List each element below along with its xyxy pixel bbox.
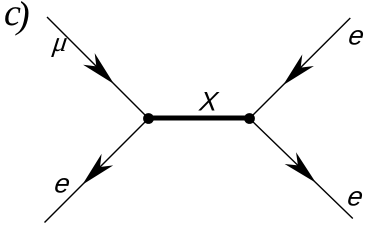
label c) panel letter [4, 0, 30, 37]
svg-text:X: X [197, 86, 220, 117]
node: right vertex dot [244, 113, 255, 124]
node: left vertex dot [143, 113, 154, 124]
wire: incoming muon line (top-left to left vertex) [47, 17, 149, 119]
svg-text:e: e [53, 168, 73, 199]
X boson propagator (thick horizontal line) [149, 116, 250, 121]
wire: outgoing electron line (left vertex to bottom-left) [45, 119, 149, 223]
svg-text:): ) [15, 0, 30, 37]
svg-text:e: e [347, 20, 367, 51]
svg-text:μ: μ [50, 27, 69, 58]
arrow on bottom-left electron line (points down-left, outgoing) [77, 154, 114, 191]
wire: incoming electron line (top-right to right vertex) [250, 18, 351, 119]
arrow on muon line (points down-right toward vertex) [83, 53, 120, 90]
svg-text:e: e [346, 180, 366, 211]
arrow on top-right electron line (points down-left toward vertex) [277, 54, 314, 91]
arrow on bottom-right electron line (points down-right, outgoing) [285, 152, 322, 188]
wire: outgoing electron line (right vertex to bottom-right) [250, 119, 353, 219]
